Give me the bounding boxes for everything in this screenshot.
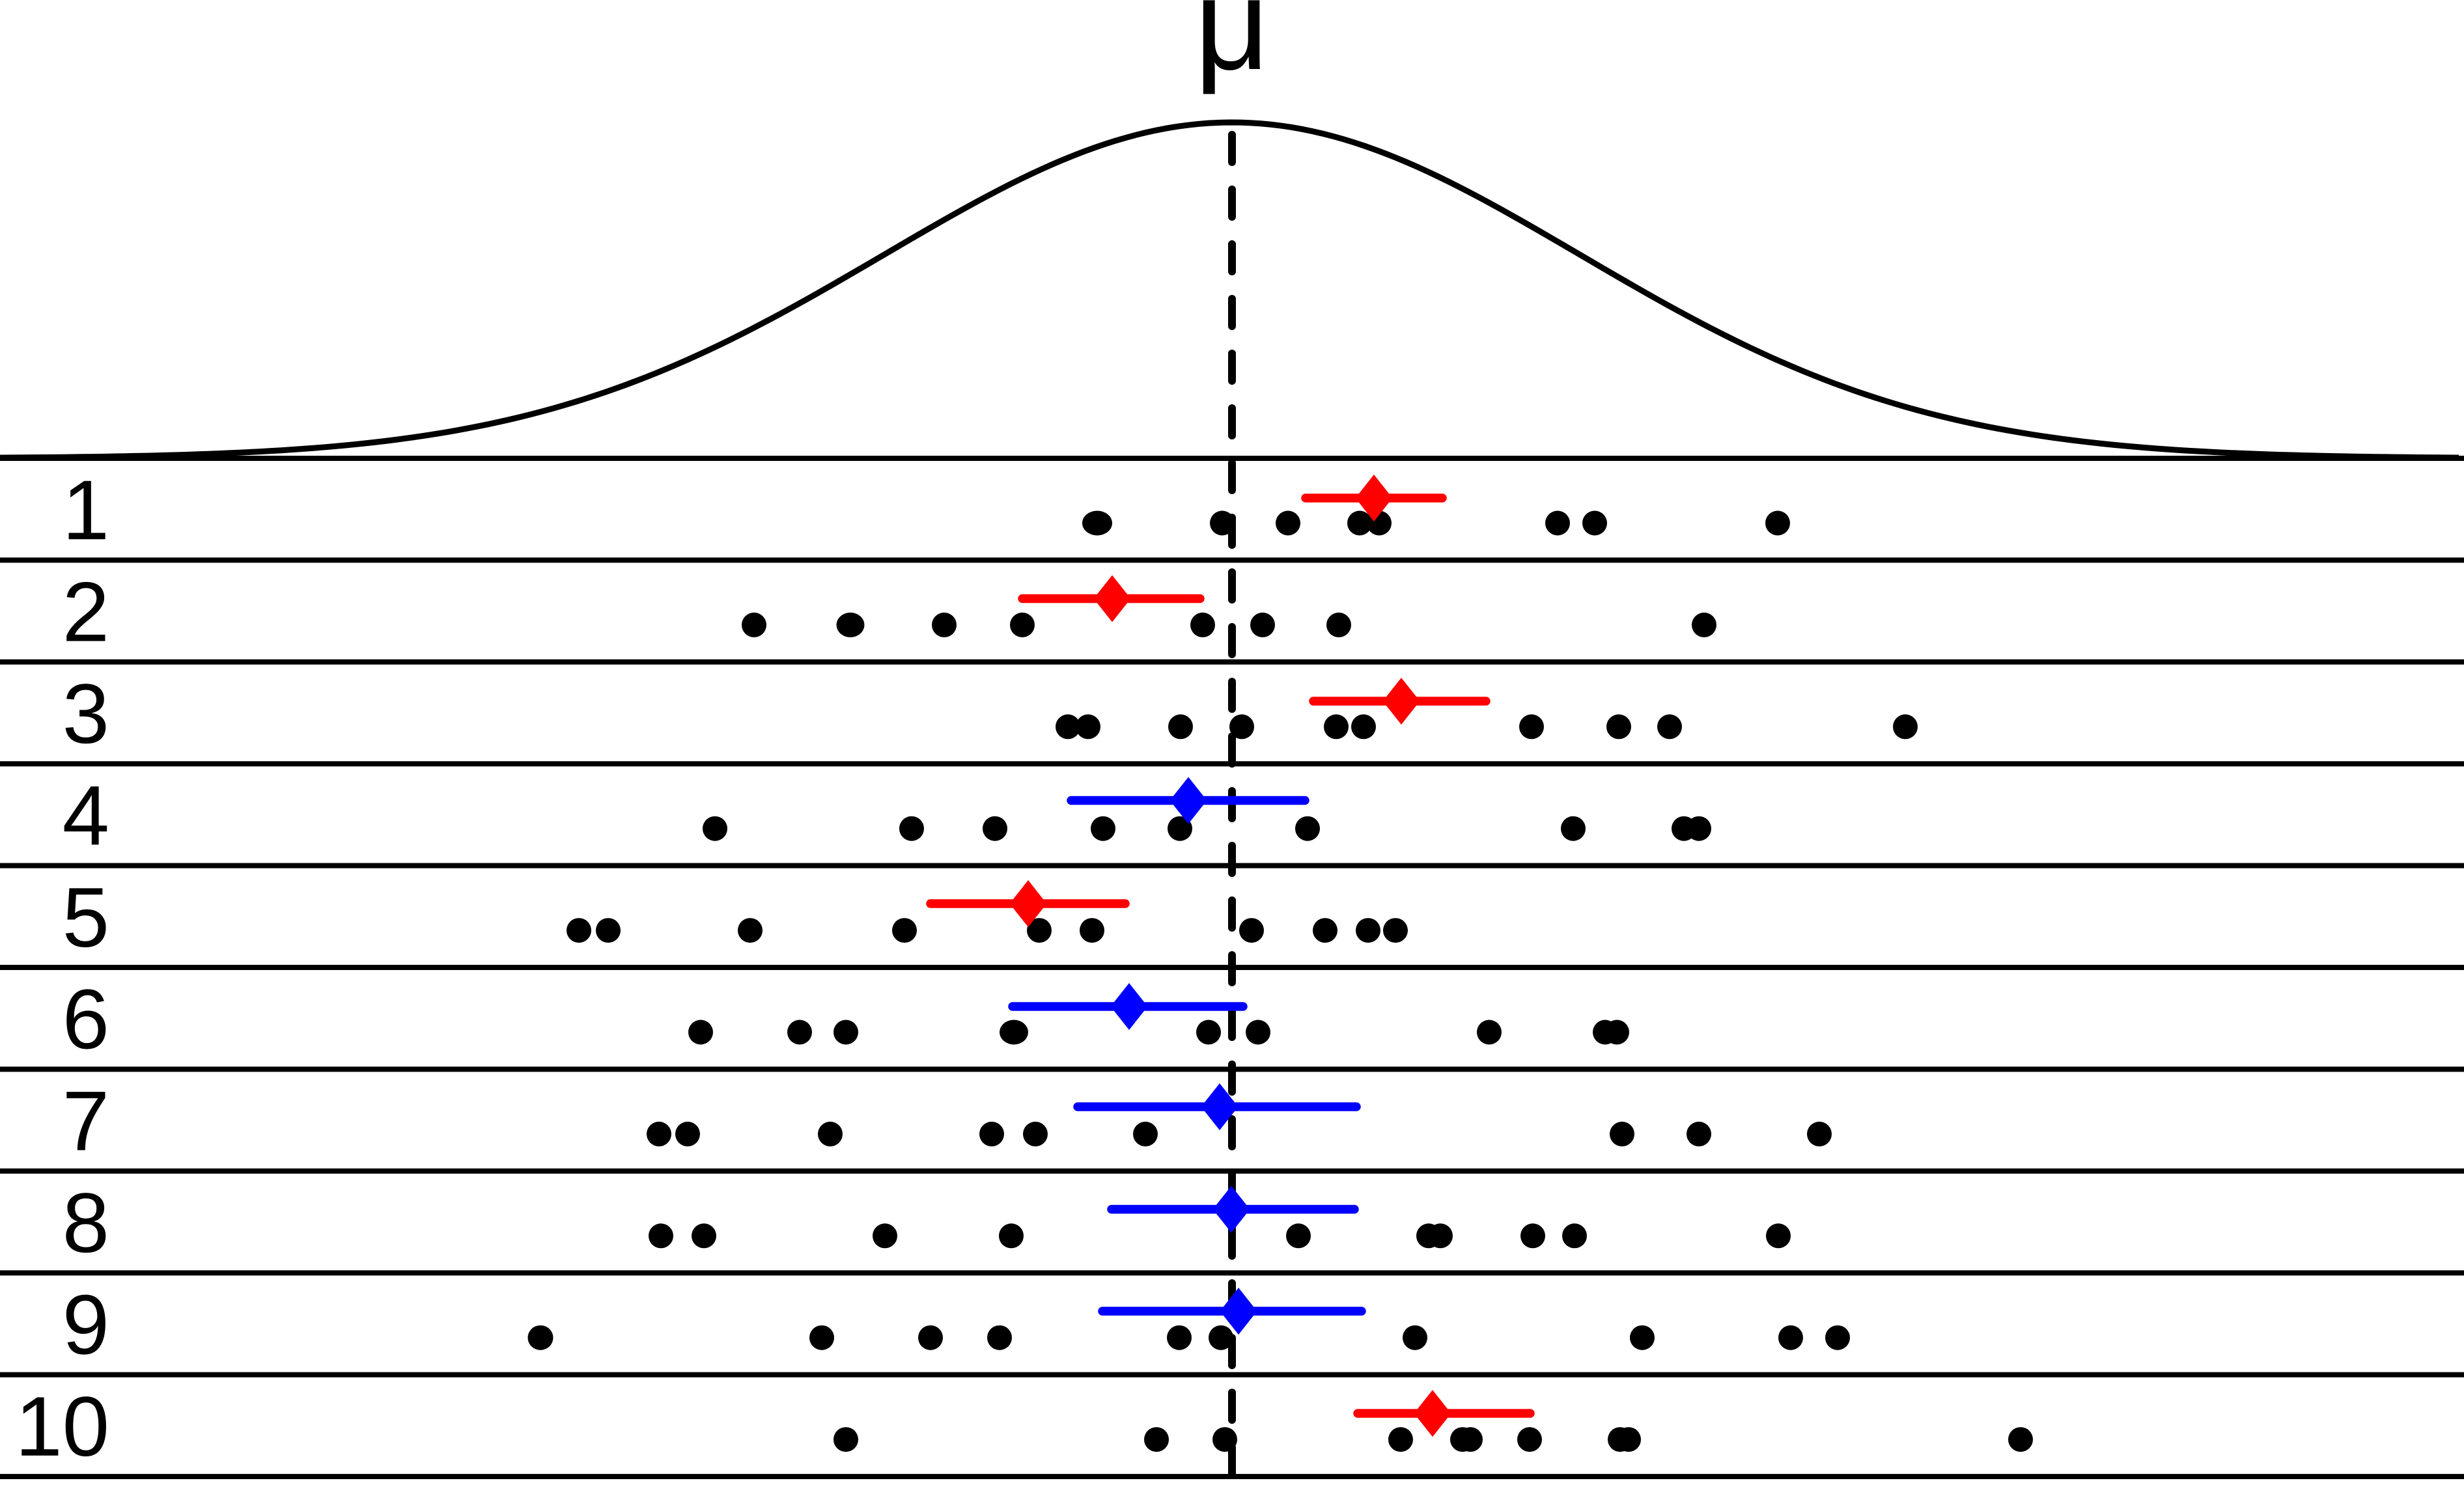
confidence interval row 3 (red) xyxy=(1313,678,1486,725)
horizontal grid line 3 xyxy=(0,761,2464,766)
confidence interval row 2 (red) xyxy=(1022,576,1200,622)
svg-text:7: 7 xyxy=(63,1074,109,1169)
confidence interval row 9 (blue) xyxy=(1102,1288,1362,1335)
svg-text:9: 9 xyxy=(63,1277,109,1372)
svg-text:4: 4 xyxy=(63,768,109,863)
sample dots row 9 xyxy=(528,1325,1851,1350)
horizontal grid line 4 xyxy=(0,863,2464,868)
confidence interval row 7 (blue) xyxy=(1078,1083,1356,1130)
horizontal grid line 6 xyxy=(0,1066,2464,1072)
sample dots row 10 xyxy=(833,1427,2033,1452)
confidence interval row 6 (blue) xyxy=(1013,983,1243,1030)
horizontal grid line 8 xyxy=(0,1270,2464,1275)
sample dots row 6 xyxy=(688,1020,1629,1045)
sample dots row 8 xyxy=(649,1223,1791,1248)
horizontal grid line 7 xyxy=(0,1169,2464,1174)
svg-text:3: 3 xyxy=(63,666,109,761)
horizontal grid line 1 xyxy=(0,557,2464,562)
sample dots row 4 xyxy=(703,816,1711,841)
svg-text:8: 8 xyxy=(63,1175,109,1270)
sample dots row 5 xyxy=(567,918,1408,943)
horizontal grid line 5 xyxy=(0,965,2464,970)
horizontal grid line 9 xyxy=(0,1372,2464,1378)
horizontal grid line 0 xyxy=(0,456,2464,461)
svg-text:10: 10 xyxy=(15,1379,109,1474)
svg-text:2: 2 xyxy=(63,564,109,659)
horizontal grid line 2 xyxy=(0,659,2464,665)
sample dots row 7 xyxy=(647,1122,1832,1146)
confidence interval row 4 (blue) xyxy=(1071,777,1305,824)
svg-text:6: 6 xyxy=(63,971,109,1066)
confidence interval row 1 (red) xyxy=(1306,475,1442,521)
sample dots row 3 xyxy=(1056,714,1918,739)
svg-text:1: 1 xyxy=(63,462,109,557)
horizontal grid line 10 xyxy=(0,1474,2464,1479)
sample dots row 1 xyxy=(1082,511,1790,536)
normal distribution curve xyxy=(0,122,2459,458)
dashed vertical mean line xyxy=(1228,135,1236,1485)
svg-text:5: 5 xyxy=(63,870,109,965)
confidence interval row 5 (red) xyxy=(931,880,1125,927)
confidence interval row 8 (blue) xyxy=(1112,1186,1354,1233)
confidence interval row 10 (red) xyxy=(1358,1390,1530,1437)
sample dots row 2 xyxy=(742,613,1716,637)
svg-text:μ: μ xyxy=(1194,0,1269,97)
